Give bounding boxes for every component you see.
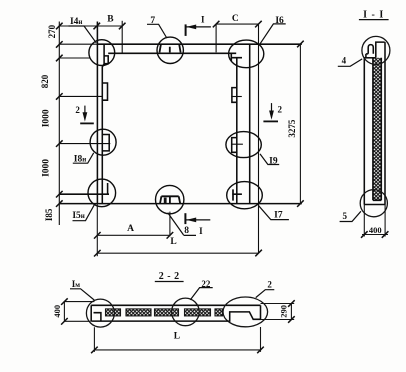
wire: left panel right edge [102,44,104,203]
node: callout circle bottom-center [156,185,184,213]
svg-text:2: 2 [278,105,283,115]
node: 2-2 hatch segment 1 [106,309,121,316]
node: 2-2 400 dimension left [64,302,94,322]
node: 2-2 hatch segment 5 [215,309,223,316]
node: section marker I top [186,24,211,36]
node: I-I lifting loop detail 4 [368,45,373,54]
svg-text:2: 2 [75,105,80,115]
node: I-I 400 dimension [364,205,385,237]
wire: chain extension y=58 [59,57,90,59]
svg-text:L: L [170,237,176,247]
wire: chain extension y=44.6 [59,43,97,45]
svg-text:4: 4 [342,56,347,66]
svg-text:I000: I000 [42,109,52,127]
node: callout circle top-right [229,40,264,68]
wire: chain extension y=194.2 [59,193,109,195]
wire: right shared extension line (C and L dims) [258,24,260,253]
svg-text:820: 820 [40,74,50,88]
wire: C dim left extension [215,24,217,52]
node: bottom-left corner joint detail [107,183,109,195]
svg-text:I: I [199,226,203,236]
node: callout circle top-center [157,37,183,63]
node: B dimension ticks [94,23,101,30]
node: callout circle bottom-left [88,179,116,207]
node: chain tick marks [56,23,63,30]
node: section marker I bottom [185,213,210,224]
node: 2-2 290 dimension right [261,304,295,320]
node: top-right corner joint detail [231,53,242,61]
svg-text:Iм: Iм [72,279,81,289]
wire: left dimension chain line [58,22,60,226]
node: I-I hatched core strip [373,58,381,201]
svg-text:I - I: I - I [363,9,384,20]
wire: chain extension y=143.6 [59,143,110,145]
node: I-I bottom callout circle [360,190,387,217]
node: top-left corner joint detail [104,56,108,64]
svg-text:I000: I000 [42,159,52,177]
node: 2-2 hatch segment 2 [126,309,151,316]
node: left panel middle tab (detail 18н) [102,135,109,151]
wire: 2-2 bar top edge [91,304,260,306]
node: right panel middle tab (detail 19) [232,138,237,153]
svg-text:2 - 2: 2 - 2 [159,271,180,282]
svg-text:I: I [201,15,205,25]
node: callout circle bottom-right [227,182,263,209]
svg-text:I85: I85 [44,208,54,221]
wire: chain extension y=26 and B dimension line [59,25,122,27]
wire: top panel bottom edge [108,52,236,54]
wire: left panel left edge [96,22,98,204]
node: 2-2 callout circle left [86,299,114,327]
node: 2-2 hatch segment 4 [185,309,211,316]
node: 2-2 callout circle middle [172,298,200,326]
node: section marker 2 right [263,103,278,121]
wire: top panel top edge + 3275 top extension [97,43,301,45]
svg-text:L: L [174,331,180,341]
svg-text:3275: 3275 [287,119,297,138]
node: I-I top rib detail [376,42,385,58]
node: 3275 dimension line and ticks [299,44,301,204]
node: 2-2 callout ellipse right [223,297,268,327]
node: section marker 2 left [80,106,94,124]
svg-text:290: 290 [278,305,288,318]
svg-text:C: C [232,14,239,24]
svg-text:5: 5 [343,211,348,221]
svg-text:I5н: I5н [72,211,85,221]
wire: right panel left edge [236,58,238,204]
wire: right panel right edge [249,44,251,203]
node: L dimension of plan [96,204,98,257]
node: callout circle top-left [89,40,115,66]
wire: I-I panel right edge [384,42,386,204]
wire: 2-2 bar bottom edge with right step [91,312,260,321]
node: right panel upper tab [232,88,237,103]
wire: 2-2 bar right end [260,305,262,319]
svg-text:400: 400 [52,305,62,318]
wire: chain extension y=96.4 [59,95,102,97]
svg-text:A: A [127,224,134,234]
node: 2-2 L dimension [94,327,260,352]
wire: I-I panel bottom [364,204,385,206]
svg-text:270: 270 [47,24,57,38]
node: 2-2 left inner step detail [94,313,101,321]
wire: bottom edge line [59,203,301,205]
node: bottom-right corner joint detail [232,189,242,200]
svg-text:400: 400 [369,225,382,235]
node: 2-2 hatch segment 3 [155,309,179,316]
node: C dimension line and ticks [216,23,258,25]
svg-text:2: 2 [267,280,272,290]
wire: I-I panel left edge [363,58,365,205]
node: callout circle mid-left [90,129,116,155]
node: bottom-center joint detail [160,196,180,203]
node: I-I top callout circle [362,36,390,64]
node: callout circle mid-right [226,132,261,158]
wire: 2-2 bar left end [90,305,92,321]
wire: B dim right extension [121,21,123,53]
node: left panel upper tab [102,83,108,100]
svg-text:8: 8 [184,226,189,236]
svg-text:B: B [107,15,114,25]
node: A dimension [97,234,170,236]
node: top-center joint detail [160,44,181,52]
